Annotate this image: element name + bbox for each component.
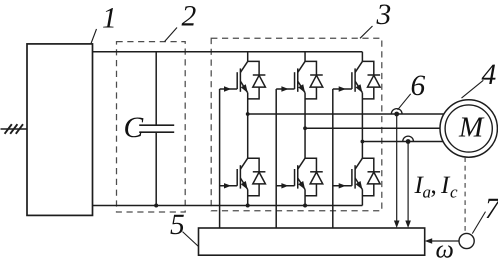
svg-text:3: 3 [376,0,392,31]
wire: Ic feedback to controller (arrow down) [407,142,409,223]
wire: three-phase supply input line [1,128,28,130]
wire: gate lead of VT1 [220,86,238,91]
svg-text:1: 1 [102,3,117,35]
wire: DC- bus [93,205,363,207]
diode VD3 (upper, leg 3) [362,61,380,99]
svg-text:5: 5 [170,209,185,241]
junction: capacitor to DC- bus [154,204,158,208]
junction: phase a tap [246,112,250,116]
diode VD6 (lower, leg 3) [362,158,380,196]
IGBT VT3 (upper, leg 3) [352,61,363,92]
pointer line for label 3 [360,26,373,38]
pointer line for label 4 [462,80,484,98]
wire: gate lead of VT5 [276,183,294,188]
wire: leg 3 emitter to DC- bus [361,190,363,206]
junction: phase b tap [303,126,307,130]
pointer line for label 2 [165,28,178,42]
current sensor hump: Ia sensor on phase a [391,109,402,114]
IGBT VT1 (upper, leg 1) [237,61,248,92]
controller block 5 [199,228,425,255]
wire: capacitor bottom lead [155,132,157,205]
wire: gate lead of VT3 [333,86,352,91]
pointer line for label 6 [398,94,411,110]
svg-text:M: M [458,112,485,144]
current sensor hump: Ic sensor on phase c [403,136,414,141]
diode VD4 (lower, leg 1) [248,158,266,196]
wire: gate control line leg 2 (to controller 5) [275,89,277,228]
wire: gate lead of VT4 [220,183,238,188]
wire: Ia feedback to controller (arrow down) [396,114,398,222]
diode VD1 (upper, leg 1) [248,61,266,99]
junction dot: Ic sensor on phase c [406,139,411,144]
wire: leg 3 collector feed from DC+ bus [361,52,363,62]
wire: leg 3 midpoint (phase c node) [361,93,363,159]
motor M inner circle [445,105,492,152]
wire: gate lead of VT2 [276,86,294,91]
wire: leg 1 collector feed from DC+ bus [247,52,249,62]
junction dot: Ia sensor on phase a [394,112,399,117]
svg-text:6: 6 [411,70,426,102]
wire: leg 1 midpoint (phase a node) [247,93,249,159]
svg-text:C: C [124,112,144,144]
wire: leg 2 emitter to DC- bus [304,190,306,206]
svg-text:c: c [450,183,458,202]
wire: phase line a (top, 6) [248,113,446,115]
pointer line for label 1 [91,29,97,44]
wire: gate lead of VT6 [333,183,352,188]
IGBT VT5 (lower, leg 2) [295,158,306,189]
wire: gate control line leg 1 (to controller 5) [219,89,221,228]
diode VD5 (lower, leg 2) [305,158,323,196]
junction: leg 1 emitter on DC- bus [246,204,250,208]
wire: DC+ bus [93,51,363,53]
rectifier block 1 [27,44,93,216]
dashed shaft link: motor to speed sensor [464,157,466,233]
junction: phase c tap [361,140,365,144]
wire: capacitor top lead [155,52,157,125]
wire: phase line c (bottom) [362,141,446,143]
svg-text:2: 2 [182,0,197,32]
pointer line for label 7 [472,212,485,234]
svg-text:,: , [431,172,437,199]
capacitor C plates [139,124,174,126]
wire: phase line b (middle) [305,127,442,129]
DC-link dashed boundary 2 [117,42,186,212]
wire: leg 2 midpoint (phase b node) [304,93,306,159]
svg-text:ω: ω [436,235,454,264]
inverter dashed boundary 3 [211,38,382,211]
IGBT VT4 (lower, leg 1) [237,158,248,189]
wire: gate control line leg 3 (to controller 5) [332,89,334,228]
pointer line for label 5 [183,232,199,247]
motor M outer circle (4) [440,100,497,157]
wire: leg 1 emitter to DC- bus [247,190,249,206]
IGBT VT2 (upper, leg 2) [295,61,306,92]
IGBT VT6 (lower, leg 3) [352,158,363,189]
wire: leg 2 collector feed from DC+ bus [304,52,306,62]
diode VD2 (upper, leg 2) [305,61,323,99]
svg-text:7: 7 [485,193,498,225]
junction: leg 2 emitter on DC- bus [303,204,307,208]
speed sensor 7 (tachometer circle) [459,233,474,248]
svg-text:4: 4 [482,59,497,91]
three-phase supply hatch marks (3 strokes) [5,124,12,134]
wire: speed feedback with arrow into controller [431,240,459,242]
